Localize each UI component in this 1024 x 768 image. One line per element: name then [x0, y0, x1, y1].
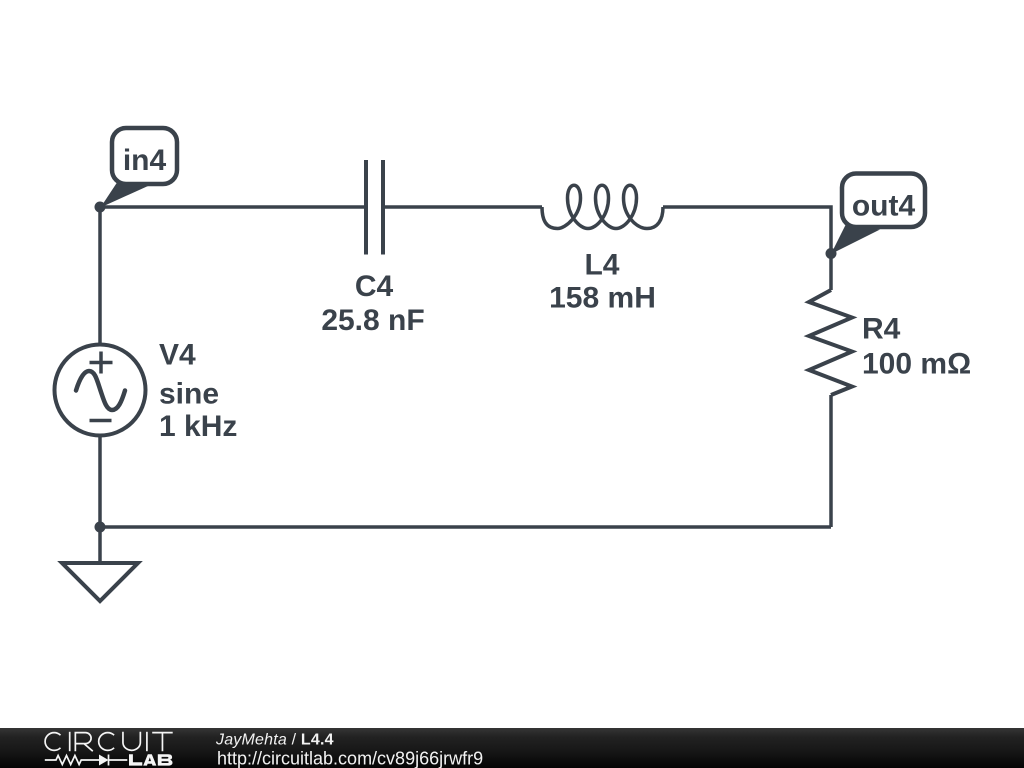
svg-text:JayMehta / L4.4: JayMehta / L4.4 [215, 731, 334, 748]
svg-text:L4: L4 [584, 249, 619, 282]
svg-text:100 mΩ: 100 mΩ [862, 348, 971, 381]
svg-text:1 kHz: 1 kHz [159, 410, 237, 443]
svg-text:C4: C4 [355, 270, 394, 303]
svg-text:25.8 nF: 25.8 nF [321, 304, 424, 337]
svg-text:http://circuitlab.com/cv89j66j: http://circuitlab.com/cv89j66jrwfr9 [217, 749, 483, 768]
svg-text:out4: out4 [852, 190, 916, 223]
svg-text:V4: V4 [159, 339, 196, 372]
svg-text:R4: R4 [862, 313, 901, 346]
svg-text:158 mH: 158 mH [549, 282, 656, 315]
svg-text:in4: in4 [123, 144, 167, 177]
svg-text:sine: sine [159, 378, 219, 411]
